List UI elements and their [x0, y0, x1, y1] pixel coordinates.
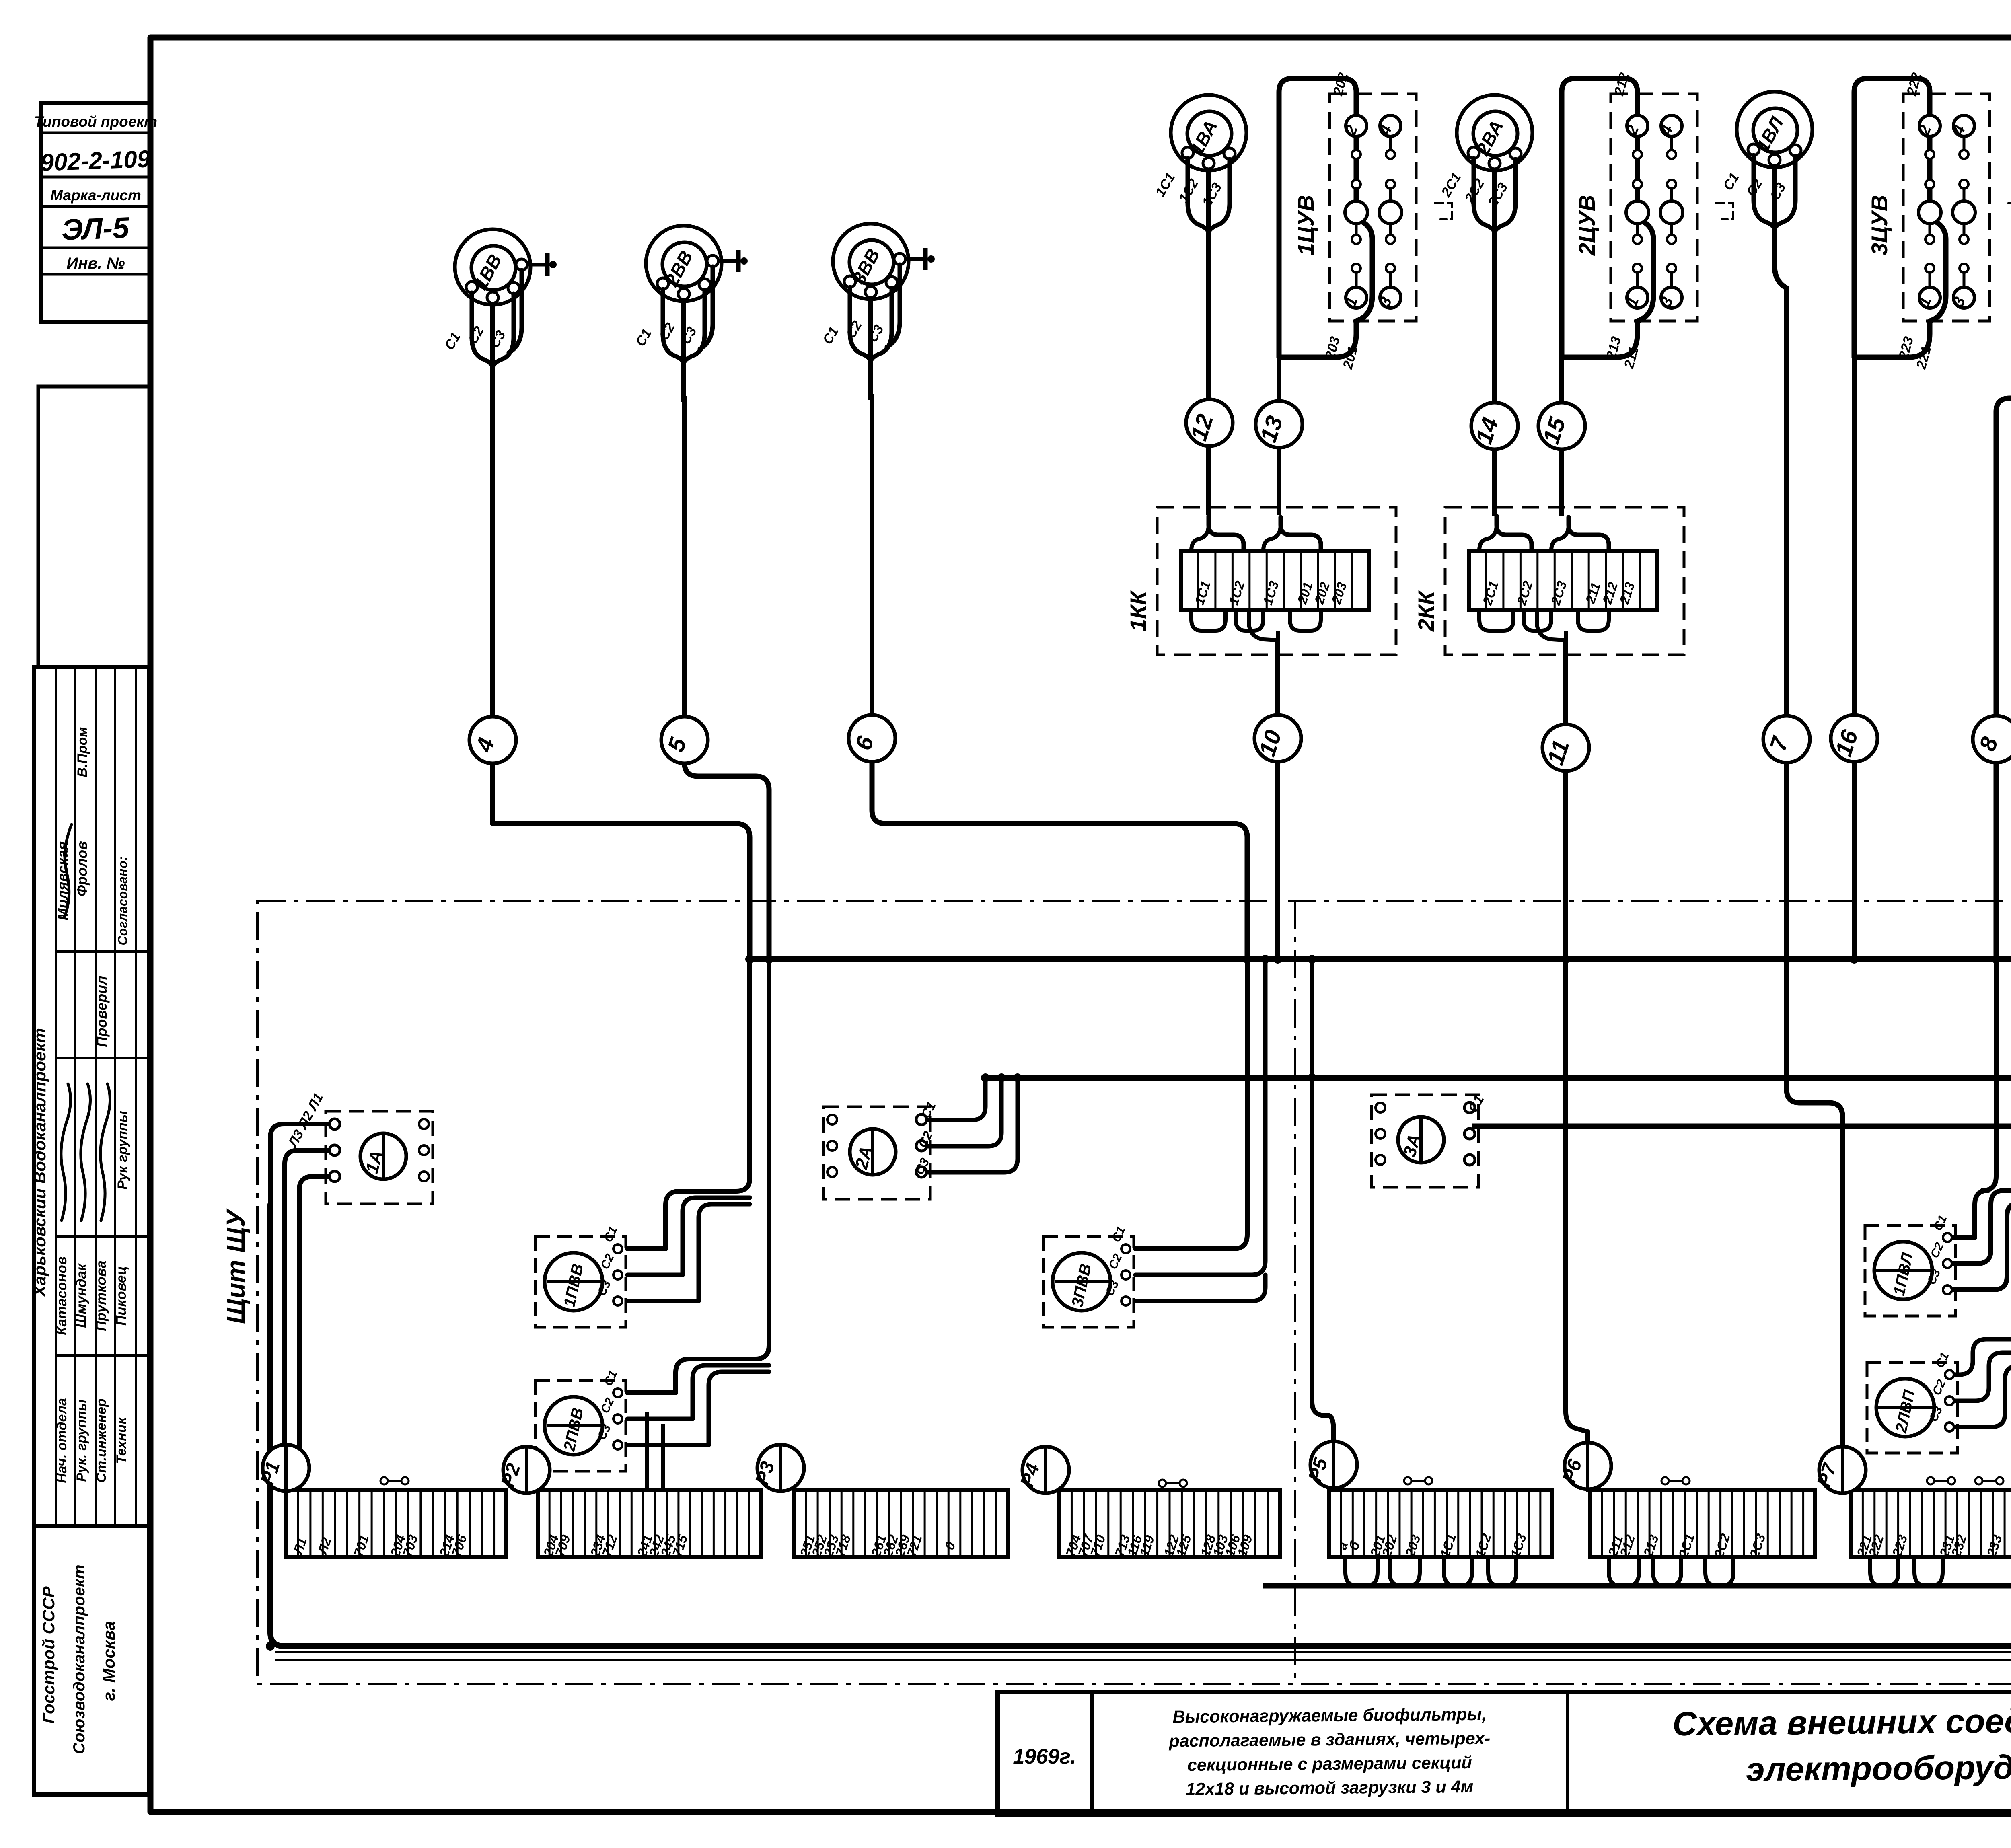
svg-text:секционные с размерами секций: секционные с размерами секций	[1187, 1753, 1472, 1775]
svg-text:Союзводоканалпроект: Союзводоканалпроект	[70, 1564, 88, 1754]
svg-text:Инв. №: Инв. №	[66, 255, 125, 272]
svg-text:Согласовано:: Согласовано:	[115, 856, 130, 945]
svg-text:электрооборудовс: электрооборудовс	[1746, 1747, 2011, 1788]
svg-text:Щит ЩУ: Щит ЩУ	[221, 1208, 250, 1324]
svg-text:Схема внешних соединений: Схема внешних соединений	[1672, 1701, 2011, 1743]
svg-text:Харьковский Водоканалпроект: Харьковский Водоканалпроект	[30, 1028, 49, 1297]
svg-text:Катасонов: Катасонов	[54, 1256, 70, 1335]
svg-text:2КК: 2КК	[1413, 590, 1439, 632]
svg-text:г. Москва: г. Москва	[99, 1621, 118, 1701]
svg-text:1КК: 1КК	[1125, 590, 1151, 631]
svg-text:3ЦУВ: 3ЦУВ	[1867, 195, 1892, 255]
svg-text:Фролов: Фролов	[74, 841, 90, 896]
svg-text:Нач. отдела: Нач. отдела	[54, 1398, 70, 1483]
svg-text:902-2-109: 902-2-109	[40, 145, 151, 176]
svg-text:Госстрой СССР: Госстрой СССР	[39, 1586, 58, 1723]
svg-text:ЭЛ-5: ЭЛ-5	[61, 211, 131, 247]
svg-text:12x18 и высотой загрузки 3 и 4: 12x18 и высотой загрузки 3 и 4м	[1186, 1777, 1473, 1799]
svg-text:Рук группы: Рук группы	[115, 1111, 130, 1190]
svg-text:Типовой проект: Типовой проект	[34, 113, 157, 130]
svg-text:1969г.: 1969г.	[1013, 1745, 1076, 1768]
svg-text:Шмундак: Шмундак	[74, 1263, 89, 1328]
svg-text:Техник: Техник	[114, 1417, 129, 1464]
svg-text:располагаемые в зданиях, четыр: располагаемые в зданиях, четырех-	[1168, 1729, 1490, 1751]
svg-text:Рук. группы: Рук. группы	[74, 1399, 89, 1482]
svg-text:Пиковец: Пиковец	[113, 1266, 129, 1326]
svg-text:Ст.инженер: Ст.инженер	[94, 1398, 109, 1482]
svg-text:В.Пром: В.Пром	[75, 727, 90, 777]
svg-text:Марка-лист: Марка-лист	[50, 187, 141, 204]
svg-text:2ЦУВ: 2ЦУВ	[1574, 195, 1600, 256]
svg-text:Высоконагружаемые биофильтры,: Высоконагружаемые биофильтры,	[1172, 1705, 1487, 1727]
svg-text:Пруткова: Пруткова	[93, 1260, 109, 1331]
svg-text:1ЦУВ: 1ЦУВ	[1293, 195, 1318, 255]
svg-text:Проверил: Проверил	[93, 976, 110, 1047]
